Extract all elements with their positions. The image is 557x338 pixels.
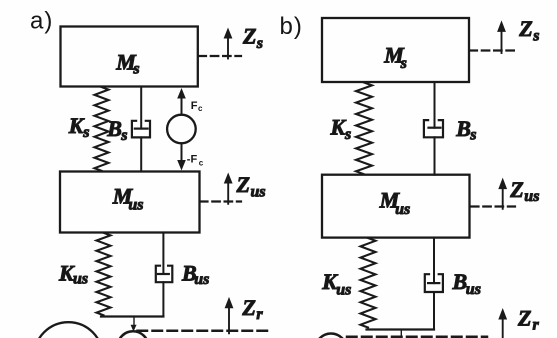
damper Bs (a) piston plate (135, 128, 148, 130)
tire large arc (a) (34, 322, 103, 338)
svg-text:us: us (73, 271, 88, 288)
Zs (b) arrow shaft (501, 31, 503, 53)
svg-text:us: us (524, 188, 539, 205)
svg-text:us: us (128, 196, 143, 213)
svg-text:K: K (330, 114, 347, 139)
mass box Ms (b) (322, 18, 469, 82)
damper Bus (b) rod lower (433, 292, 435, 330)
svg-text:s: s (132, 61, 139, 78)
Zs dashed datum line (b) (470, 49, 516, 51)
svg-text:s: s (532, 28, 539, 45)
svg-text:s: s (469, 127, 476, 144)
svg-text:Z: Z (517, 306, 531, 331)
damper Bus (a) cylinder cup (156, 266, 173, 283)
Zr (a) arrowhead (225, 297, 234, 308)
svg-text:c: c (199, 159, 204, 168)
Zs (a) arrowhead (224, 28, 233, 39)
damper Bus (b) cylinder cup (425, 274, 443, 292)
svg-text:s: s (400, 55, 407, 72)
damper Bs (a) cylinder cup (132, 121, 150, 138)
Zus (a) arrowhead (224, 173, 233, 184)
Zs (a) arrow shaft (227, 38, 229, 59)
damper Bs (b) cylinder cup (424, 120, 443, 137)
svg-text:us: us (194, 271, 209, 288)
spring Kus (b) (361, 238, 376, 328)
svg-text:Z: Z (241, 295, 255, 320)
mass box Mus (a) (60, 172, 200, 233)
Zs (b) arrowhead (497, 20, 506, 32)
svg-text:r: r (533, 316, 540, 333)
svg-text:r: r (256, 306, 263, 323)
svg-text:c: c (198, 104, 203, 113)
Zs dashed datum line (a) (199, 55, 242, 57)
actuator circle (a) (167, 115, 196, 144)
damper Bs (b) rod lower (434, 137, 436, 174)
svg-text:s: s (120, 127, 127, 144)
Zus (a) arrow shaft (227, 183, 229, 204)
mass box Ms (a) (61, 27, 198, 87)
damper Bs (a) rod lower (140, 137, 142, 171)
spring Kus (a) (97, 233, 111, 315)
contact drop line (a) (133, 317, 135, 329)
tire small circle (b) (316, 334, 347, 338)
svg-text:Z: Z (242, 24, 256, 49)
actuator lower arrowhead (a) (177, 160, 186, 171)
damper Bus (a) piston plate (158, 273, 169, 275)
tire small circle (a) (118, 331, 149, 338)
svg-text:B: B (455, 116, 471, 141)
bottom connector line (b) (367, 328, 435, 330)
road dashed line (a) (138, 329, 269, 332)
actuator upper arrowhead (a) (177, 88, 186, 99)
Zus (b) arrowhead (498, 178, 507, 190)
Zus dashed datum line (a) (200, 200, 241, 202)
mass box Mus (b) (322, 175, 470, 238)
svg-text:us: us (336, 281, 351, 298)
Zr (a) arrow shaft (228, 307, 230, 333)
svg-text:s: s (256, 35, 263, 52)
damper Bus (b) rod upper (433, 238, 435, 284)
damper Bus (b) piston plate (428, 282, 439, 284)
svg-text:Z: Z (518, 16, 532, 41)
actuator lower shaft (a) (181, 143, 183, 160)
actuator upper shaft (a) (181, 97, 183, 115)
svg-text:s: s (82, 124, 89, 141)
damper Bus (a) rod upper (162, 233, 164, 275)
svg-text:-F: -F (187, 154, 198, 166)
Zus dashed datum line (b) (471, 205, 515, 207)
svg-text:us: us (395, 201, 410, 218)
Zr (b) arrowhead (498, 308, 507, 320)
svg-text:b): b) (280, 13, 303, 40)
damper Bs (b) rod upper (434, 82, 436, 128)
svg-text:Z: Z (509, 177, 523, 202)
spring Ks (a) (95, 87, 109, 171)
contact drop line (b) (400, 330, 402, 338)
damper Bs (b) piston plate (429, 127, 441, 129)
road dashed line (b) (347, 336, 487, 338)
svg-text:B: B (106, 116, 122, 141)
Zr (b) arrow shaft (502, 319, 504, 338)
svg-text:a): a) (30, 8, 53, 35)
damper Bus (a) rod lower (162, 282, 164, 316)
svg-text:F: F (191, 100, 198, 112)
svg-text:Z: Z (236, 172, 250, 197)
Zus (b) arrow shaft (502, 188, 504, 209)
svg-text:us: us (251, 183, 266, 200)
damper Bs (a) rod upper (140, 87, 142, 129)
svg-text:us: us (466, 281, 481, 298)
contact arrowhead (a) (131, 325, 137, 332)
spring Ks (b) (356, 83, 372, 175)
svg-text:s: s (344, 126, 351, 143)
bottom connector line (a) (101, 315, 163, 317)
